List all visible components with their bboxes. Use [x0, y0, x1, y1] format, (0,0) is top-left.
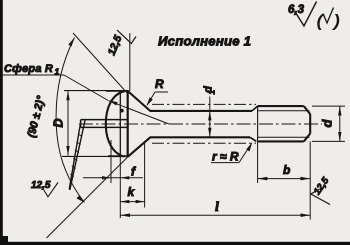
- sphere leader: [64, 75, 108, 101]
- head max-diameter junction line: [119, 91, 121, 157]
- junction extension line below head (for f,k,l): [119, 157, 121, 218]
- sphere label shelf: [2, 74, 64, 76]
- angle label (90 +-2) deg: [26, 94, 48, 138]
- axis centerline: [79, 123, 322, 125]
- roughness 12,5 above head: mark: [117, 30, 136, 44]
- slot band top wall: [81, 119, 128, 121]
- roughness 12,5 bottom right: mark: [311, 189, 330, 205]
- r=R leader: [239, 145, 251, 163]
- k arrow right: [136, 200, 145, 203]
- r=R arrow: [246, 142, 252, 151]
- sphere leader arrow: [108, 100, 118, 105]
- R leader arrow: [146, 97, 152, 106]
- svg-text:l: l: [215, 200, 219, 215]
- k right extension line: [144, 143, 146, 208]
- b arrow right: [301, 177, 311, 181]
- angle arc arrow top: [68, 38, 74, 47]
- r=R shelf: [211, 162, 239, 164]
- svg-text:12,5: 12,5: [31, 180, 51, 191]
- scan corner smudge bottom-left: [0, 236, 8, 245]
- angle extension line bottom: [47, 157, 128, 238]
- thread start line: [257, 106, 259, 141]
- svg-text:r ≈ R: r ≈ R: [212, 150, 239, 164]
- thread root line top: [258, 110, 310, 112]
- scan edge bottom bar: [0, 242, 350, 245]
- cone generator top: [128, 91, 151, 111]
- head bottom edge + D extension line: [62, 155, 128, 157]
- b left extension (thread start, extended): [257, 141, 259, 183]
- svg-text:): ): [333, 13, 340, 30]
- R leader shelf: [155, 91, 168, 93]
- thread runout top: [252, 106, 258, 111]
- cone generator bottom: [128, 137, 151, 157]
- end face: [309, 114, 311, 134]
- k dimension line: [120, 201, 144, 203]
- k arrow left: [120, 200, 129, 203]
- d extension line bottom: [312, 140, 345, 142]
- R leader: [147, 92, 155, 105]
- svg-text:d: d: [320, 118, 335, 127]
- shank bottom edge: [150, 136, 250, 138]
- f arrow right: [120, 176, 129, 179]
- svg-text:1: 1: [208, 90, 217, 95]
- d arrow bottom: [338, 132, 341, 141]
- b / l right extension line: [309, 141, 311, 219]
- nominal diameter dash-dot line bottom: [152, 142, 256, 144]
- svg-text:R: R: [155, 77, 164, 91]
- D arrow bottom: [66, 146, 69, 155]
- d arrow top: [338, 106, 341, 115]
- d1 arrow top: [208, 111, 211, 120]
- nominal diameter dash-dot line top: [152, 103, 256, 105]
- thread runout bottom: [250, 137, 256, 141]
- local section wedge line left: [69, 122, 81, 190]
- d1 dimension line: [209, 97, 211, 138]
- D dimension line: [67, 91, 69, 155]
- D label: [52, 118, 66, 127]
- wedge hatching: [70, 126, 84, 177]
- angle dimension arc: [56, 38, 84, 203]
- roughness 12,5 above head: value: [106, 34, 125, 58]
- thread major diameter bottom: [258, 140, 304, 142]
- thread root line bottom: [258, 136, 310, 138]
- svg-text:D: D: [52, 118, 66, 127]
- d label: [320, 118, 335, 127]
- svg-text:Сфера R: Сфера R: [4, 63, 53, 75]
- d dimension line: [339, 106, 341, 141]
- slot floor line: [127, 91, 129, 157]
- d extension line top: [312, 105, 345, 107]
- slot dot: [120, 109, 124, 113]
- svg-text:b: b: [283, 163, 290, 177]
- angle arc arrow bottom: [77, 196, 85, 203]
- roughness 12,5 above head: extension line: [129, 33, 131, 91]
- roughness 12,5 bottom left: mark: [44, 183, 59, 197]
- d1 label: [203, 86, 217, 95]
- D arrow top: [66, 91, 69, 100]
- shank top edge: [150, 110, 252, 112]
- d1 arrow bottom: [208, 128, 211, 137]
- l arrow left: [120, 213, 130, 217]
- spherical face arc of head: [106, 91, 125, 156]
- slot band left end: [80, 120, 82, 128]
- slot band bottom wall: [81, 126, 128, 128]
- svg-text:Исполнение 1: Исполнение 1: [158, 34, 251, 49]
- chamfer top: [304, 106, 310, 114]
- b dimension line: [258, 178, 311, 180]
- chamfer bottom: [304, 134, 310, 142]
- general roughness mark: [296, 2, 317, 27]
- sphere radius line to center: [109, 101, 169, 124]
- f arrow left: [102, 176, 111, 179]
- scan edge left bar: [0, 0, 3, 245]
- l arrow right: [301, 213, 311, 217]
- roughness 12,5 bottom right: value: [312, 175, 332, 197]
- sphere-top extension line (for f): [110, 140, 112, 183]
- local section wedge line right: [70, 119, 85, 190]
- b arrow left: [258, 177, 268, 181]
- angle extension line top: [73, 33, 128, 94]
- f dimension line: [83, 177, 143, 179]
- thread major diameter top: [258, 105, 304, 107]
- l dimension line: [120, 214, 310, 216]
- head top edge + D extension line: [64, 90, 129, 92]
